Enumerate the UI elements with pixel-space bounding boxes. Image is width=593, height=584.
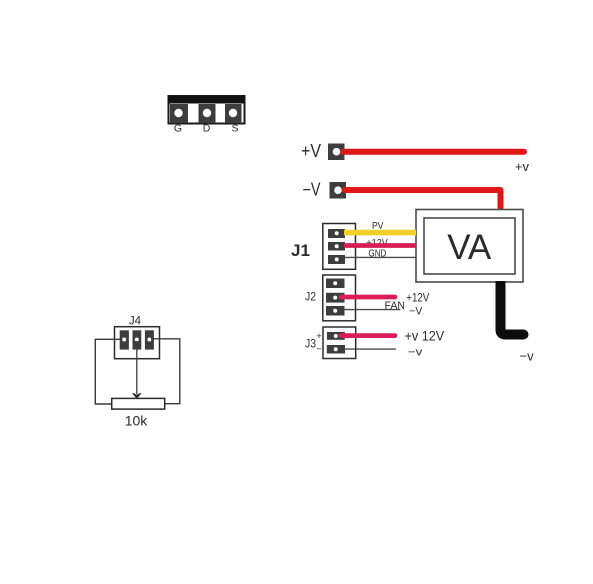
connector J3 bbox=[323, 327, 356, 359]
VA meter U1 bbox=[416, 210, 523, 283]
svg-text:J3: J3 bbox=[305, 337, 316, 351]
svg-text:J1: J1 bbox=[291, 241, 310, 260]
svg-text:+12V: +12V bbox=[406, 291, 429, 305]
wire GND bbox=[345, 256, 416, 258]
wire pot right bbox=[151, 339, 180, 404]
svg-text:−: − bbox=[316, 344, 322, 355]
wire +12V pink bbox=[344, 243, 416, 248]
wire PV yellow bbox=[344, 230, 416, 236]
svg-text:+v 12V: +v 12V bbox=[405, 328, 445, 344]
svg-text:D: D bbox=[203, 123, 211, 135]
connector J2 bbox=[323, 275, 356, 321]
svg-text:−v: −v bbox=[408, 346, 423, 358]
connector J4 bbox=[115, 327, 160, 359]
svg-text:+: + bbox=[316, 331, 322, 342]
wire FAN +12V pink bbox=[341, 295, 395, 300]
wire -v thin (J3) bbox=[345, 348, 396, 350]
svg-text:S: S bbox=[231, 123, 238, 135]
svg-text:+v: +v bbox=[515, 159, 530, 174]
wire pot left bbox=[95, 339, 122, 404]
svg-text:VA: VA bbox=[447, 228, 492, 267]
wire -V thin (J2) bbox=[345, 309, 401, 311]
svg-text:G: G bbox=[174, 123, 182, 135]
wire -V red bbox=[345, 190, 501, 208]
potentiometer R body bbox=[112, 398, 165, 409]
svg-text:J4: J4 bbox=[129, 316, 142, 328]
wire +V red bbox=[343, 149, 524, 155]
terminal +V bbox=[328, 144, 345, 161]
svg-text:−V: −V bbox=[303, 180, 321, 200]
svg-text:−v: −v bbox=[520, 349, 535, 364]
svg-text:−V: −V bbox=[409, 306, 423, 318]
terminal -V bbox=[330, 182, 347, 199]
svg-text:J2: J2 bbox=[305, 289, 316, 303]
wire black (VA minus lead) bbox=[501, 281, 524, 335]
svg-text:10k: 10k bbox=[125, 413, 149, 429]
wire +v pink (J3) bbox=[341, 333, 395, 338]
connector J1 bbox=[323, 224, 356, 270]
svg-text:+V: +V bbox=[301, 141, 321, 161]
connector GDS (MOSFET pinout) bbox=[168, 96, 245, 124]
wiper wire with arrow bbox=[133, 341, 141, 398]
